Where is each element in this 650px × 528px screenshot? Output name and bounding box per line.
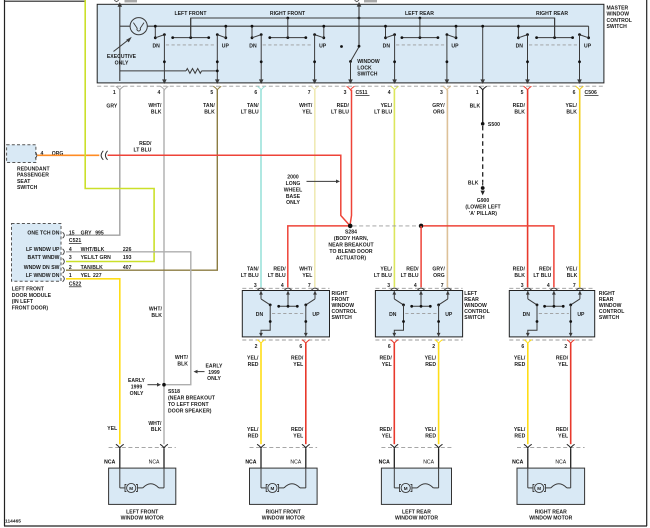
svg-text:TAN/: TAN/: [247, 267, 259, 273]
svg-text:7: 7: [441, 283, 444, 289]
RIGHT FRONT pin stubs: [260, 449, 262, 469]
svg-text:GRY: GRY: [81, 230, 93, 236]
LEFT REAR window control switch box: [375, 291, 462, 337]
svg-text:RED/: RED/: [291, 356, 304, 362]
svg-text:5: 5: [521, 90, 524, 96]
wire YEL/RED RF pin2 to RF motor: [260, 343, 262, 444]
svg-text:NCA: NCA: [245, 459, 256, 465]
svg-text:3: 3: [440, 90, 443, 96]
svg-text:EARLY: EARLY: [206, 364, 224, 370]
LEFT REAR pin cap x=421: [417, 288, 424, 290]
svg-text:LEFT FRONT: LEFT FRONT: [174, 11, 207, 17]
RIGHT REAR pin cap x=553.9: [550, 288, 557, 290]
svg-text:2: 2: [564, 344, 567, 350]
off-page chevron (top left): [114, 0, 118, 2]
svg-text:TO BLEND DOOR: TO BLEND DOOR: [329, 249, 372, 255]
master LEFT REAR DN wiper: [386, 35, 395, 38]
svg-text:7: 7: [573, 283, 576, 289]
RIGHT FRONT motor M symbol: [260, 468, 262, 488]
RIGHT REAR mechanical link dashed: [539, 312, 569, 314]
master RIGHT REAR UP pin line: [579, 35, 581, 81]
svg-text:SWITCH: SWITCH: [357, 72, 378, 78]
svg-text:RED: RED: [425, 362, 436, 368]
svg-text:3: 3: [69, 255, 72, 261]
wire ORG horizontal: [37, 154, 99, 156]
svg-text:YEL/: YEL/: [514, 356, 526, 362]
dashed harness run S284 to splice: [353, 225, 419, 227]
wire RED/LT BLU horizontal to S284 branch: [108, 155, 349, 224]
window lock switch: [358, 45, 361, 48]
svg-text:WHT/: WHT/: [175, 355, 189, 361]
LEFT REAR DN wiper: [394, 299, 403, 305]
svg-text:GRY/: GRY/: [432, 267, 445, 273]
LEFT REAR window motor box: [381, 468, 451, 504]
LEFT REAR motor pin feet NCA: [390, 444, 398, 448]
svg-text:YEL: YEL: [107, 426, 117, 432]
svg-text:MASTER: MASTER: [607, 5, 629, 11]
window lock switch free contact: [340, 45, 343, 48]
svg-text:ACTUATOR): ACTUATOR): [336, 256, 366, 262]
splice node (body harness): [419, 224, 424, 229]
RIGHT REAR pin stubs: [527, 449, 529, 469]
svg-text:1999: 1999: [208, 370, 220, 376]
svg-text:YEL: YEL: [558, 433, 568, 439]
RIGHT FRONT connector dashes bottom: [242, 339, 329, 341]
svg-text:PASSENGER: PASSENGER: [17, 173, 49, 179]
svg-text:ONLY: ONLY: [207, 376, 221, 382]
svg-text:M: M: [129, 486, 133, 491]
svg-text:UP: UP: [451, 44, 459, 50]
RIGHT FRONT bottom pin 2 foot: [257, 340, 265, 344]
wire YEL/RED RR pin6 to RR motor: [527, 343, 529, 444]
svg-text:1: 1: [476, 90, 479, 96]
svg-text:WINDOW: WINDOW: [607, 12, 630, 18]
svg-text:YEL/: YEL/: [247, 427, 259, 433]
svg-text:BLK: BLK: [177, 361, 188, 367]
svg-text:(LOWER LEFT: (LOWER LEFT: [465, 205, 501, 211]
window lock switch wiper: [351, 48, 359, 62]
master LEFT FRONT center contact bar: [173, 37, 209, 39]
svg-text:WNDW DN SW: WNDW DN SW: [24, 265, 60, 271]
master RIGHT FRONT DN contact stub: [251, 26, 253, 38]
master RIGHT FRONT UP contact stub: [323, 26, 325, 38]
svg-text:3: 3: [521, 283, 524, 289]
wire: lamp feed vertical x=119.8 with up arrow: [119, 4, 121, 81]
LEFT FRONT window motor box: [109, 468, 176, 504]
svg-text:TAN/BLK: TAN/BLK: [81, 265, 104, 271]
svg-text:(NEAR BREAKOUT: (NEAR BREAKOUT: [168, 395, 216, 401]
svg-text:RED/: RED/: [291, 427, 304, 433]
svg-text:RED/: RED/: [513, 267, 526, 273]
svg-text:3: 3: [254, 283, 257, 289]
svg-text:LT BLU: LT BLU: [331, 109, 349, 115]
master RIGHT REAR center contact bar: [537, 37, 573, 39]
connector pin 5 at x=217.3: [213, 86, 221, 90]
master ground pin line (BLK pin 1): [482, 26, 484, 80]
RIGHT FRONT pin cap x=288: [284, 288, 291, 290]
svg-text:LT BLU: LT BLU: [134, 147, 152, 153]
svg-text:UP: UP: [584, 44, 592, 50]
svg-text:LT BLU: LT BLU: [533, 273, 551, 279]
master RIGHT REAR UP wiper: [580, 35, 589, 38]
inline connector ((: [101, 151, 103, 160]
wire YEL/BLK vertical (to RR switch pin 7): [579, 90, 581, 287]
svg-text:DN: DN: [256, 312, 264, 318]
svg-text:ONLY: ONLY: [130, 391, 144, 397]
master window control switch U-box: [97, 4, 604, 83]
RIGHT REAR bottom pin 6 foot: [524, 340, 532, 344]
svg-text:REDUNDANT: REDUNDANT: [17, 166, 50, 172]
svg-text:YEL/LT GRN: YEL/LT GRN: [81, 255, 112, 261]
wire BLK dashed to ground: [482, 126, 484, 182]
master LEFT REAR UP contact stub: [455, 26, 457, 38]
svg-text:RED: RED: [248, 362, 259, 368]
svg-text:SWITCH: SWITCH: [332, 315, 353, 321]
svg-text:6: 6: [521, 344, 524, 350]
svg-text:BLK: BLK: [567, 273, 578, 279]
svg-text:DN: DN: [389, 312, 397, 318]
RIGHT FRONT center bar: [287, 291, 289, 306]
svg-text:YEL/: YEL/: [566, 103, 578, 109]
svg-text:WHEEL: WHEEL: [284, 187, 303, 193]
seat switch pin bracket: [35, 152, 37, 158]
svg-text:2: 2: [69, 265, 72, 271]
module wire YEL to LF motor: [66, 279, 120, 444]
connector pin 5 at x=527.5: [524, 86, 532, 90]
svg-text:YEL/: YEL/: [247, 356, 259, 362]
up bus line A y=18: [191, 18, 555, 38]
wire RED/LT BLU from C511 pin 3 to S284: [350, 90, 351, 224]
LEFT FRONT window motor connector dashes: [109, 447, 176, 449]
RIGHT FRONT UP pin entry: [314, 291, 316, 299]
RIGHT REAR connector dashes top: [509, 287, 594, 289]
LEFT REAR pin cap x=394.3: [391, 288, 398, 290]
svg-text:LEFT REAR: LEFT REAR: [405, 11, 434, 17]
svg-text:S518: S518: [168, 389, 180, 395]
svg-text:6: 6: [388, 344, 391, 350]
svg-text:LONG: LONG: [286, 181, 301, 187]
svg-text:RED/: RED/: [337, 103, 350, 109]
connector pin 3 at x=446.9: [443, 86, 451, 90]
svg-text:GRY: GRY: [106, 104, 118, 110]
RIGHT FRONT connector dashes top: [242, 287, 329, 289]
splice S500: [481, 122, 485, 126]
wire RED/BLK vertical (to RR switch pin 3): [527, 90, 529, 287]
wire WHT/YEL vertical (to RF switch pin 7): [314, 90, 316, 287]
svg-text:DOOR SPEAKER): DOOR SPEAKER): [168, 408, 212, 414]
svg-text:LT BLU: LT BLU: [374, 273, 392, 279]
node: line A dots: [286, 17, 289, 20]
svg-text:RED/: RED/: [556, 427, 569, 433]
wire YEL/RED LR pin2 to LR motor: [438, 343, 440, 444]
svg-text:SWITCH: SWITCH: [464, 315, 485, 321]
RIGHT FRONT UP wiper: [306, 299, 315, 305]
page border top (partial): [4, 0, 85, 2]
master LEFT REAR UP wiper: [447, 35, 456, 38]
LEFT REAR UP pin entry: [447, 291, 449, 299]
connector pin 3 at x=350.5: [347, 86, 355, 90]
splice S518: [162, 383, 166, 387]
RIGHT REAR bottom pin 2 foot: [567, 340, 575, 344]
master LEFT FRONT DN pin line: [163, 35, 165, 81]
svg-text:WHT/: WHT/: [148, 103, 162, 109]
svg-text:5: 5: [210, 90, 213, 96]
LEFT REAR bottom pin 6 foot: [390, 340, 398, 344]
LEFT FRONT pin stubs: [119, 449, 121, 469]
svg-text:LOCK: LOCK: [357, 65, 372, 71]
master LEFT REAR mechanical link (dashed): [396, 44, 445, 46]
svg-text:S284: S284: [345, 230, 357, 236]
svg-text:RED/: RED/: [379, 427, 392, 433]
master RIGHT FRONT UP pin line: [314, 35, 316, 81]
svg-text:GRY/: GRY/: [432, 103, 445, 109]
master LEFT REAR center vertical: [419, 18, 421, 38]
ground G900 symbol: [482, 182, 484, 185]
redundant passenger seat switch box: [7, 145, 36, 163]
master RIGHT REAR DN wiper: [518, 35, 527, 38]
svg-text:'A' PILLAR): 'A' PILLAR): [469, 211, 497, 217]
wire BLK vertical to S500: [482, 90, 484, 124]
svg-text:TO LEFT FRONT: TO LEFT FRONT: [168, 402, 209, 408]
LEFT REAR window motor connector dashes: [381, 447, 451, 449]
svg-text:WINDOW: WINDOW: [357, 59, 380, 65]
LEFT REAR motor M symbol: [393, 468, 395, 488]
off-page chevron (top middle): [355, 0, 359, 2]
svg-text:3: 3: [344, 90, 347, 96]
connector pin 1 at x=119.8: [116, 86, 124, 90]
svg-text:YEL/: YEL/: [566, 267, 578, 273]
master LEFT FRONT DN wiper: [155, 35, 164, 38]
svg-text:NCA: NCA: [512, 459, 523, 465]
LEFT REAR UP leg: [438, 305, 440, 333]
svg-text:NCA: NCA: [104, 459, 115, 465]
svg-text:DN: DN: [249, 44, 257, 50]
svg-text:BLK: BLK: [151, 427, 162, 433]
svg-text:6: 6: [573, 90, 576, 96]
svg-text:RED/: RED/: [513, 103, 526, 109]
LEFT REAR mechanical link dashed: [405, 312, 437, 314]
LEFT REAR pin stubs: [393, 449, 395, 469]
svg-text:LEFT FRONT: LEFT FRONT: [126, 509, 159, 515]
LEFT FRONT motor pin feet NCA: [116, 444, 124, 448]
svg-text:TAN/: TAN/: [247, 103, 259, 109]
svg-text:SWITCH: SWITCH: [599, 315, 620, 321]
master RIGHT FRONT mechanical link (dashed): [263, 44, 313, 46]
LEFT REAR connector dashes top: [375, 287, 462, 289]
wire TAN/BLK vertical + into module pin 2: [66, 90, 217, 270]
svg-text:193: 193: [123, 255, 132, 261]
svg-text:WHT/: WHT/: [149, 307, 163, 313]
svg-text:RED/: RED/: [273, 267, 286, 273]
svg-text:114465: 114465: [5, 519, 21, 525]
svg-text:DN: DN: [383, 44, 391, 50]
up arrow to top at x=359 (window lock feed): [358, 3, 360, 46]
svg-text:YEL: YEL: [302, 109, 312, 115]
master LEFT FRONT UP contact stub: [225, 26, 227, 38]
svg-text:G900: G900: [477, 198, 490, 204]
svg-text:UP: UP: [222, 44, 230, 50]
svg-text:M: M: [270, 486, 274, 491]
svg-text:4: 4: [414, 283, 417, 289]
connector pin 6 at x=261.2: [257, 86, 265, 90]
RIGHT REAR UP leg: [570, 305, 572, 333]
svg-text:4: 4: [547, 283, 550, 289]
master LEFT REAR DN pin line: [394, 35, 396, 81]
master RIGHT FRONT DN pin line: [260, 35, 262, 81]
main bus line B y=26.2: [120, 25, 130, 27]
svg-text:BLK: BLK: [204, 109, 215, 115]
master LEFT REAR DN contact stub: [385, 26, 387, 38]
svg-text:SWITCH: SWITCH: [17, 185, 38, 191]
svg-text:YEL/: YEL/: [380, 267, 392, 273]
svg-text:BLK: BLK: [514, 273, 525, 279]
RIGHT REAR connector dashes bottom: [509, 339, 594, 341]
connector pin 6 at x=579.5: [576, 86, 584, 90]
master RIGHT REAR center vertical: [554, 18, 556, 38]
svg-text:DOOR MODULE: DOOR MODULE: [12, 293, 52, 299]
svg-text:NCA: NCA: [555, 459, 566, 465]
svg-text:RED/: RED/: [406, 267, 419, 273]
master RIGHT FRONT DN wiper: [252, 35, 261, 38]
svg-text:LF WNDW DN: LF WNDW DN: [26, 273, 60, 279]
wire GRY/ORG vertical (to LR switch pin 7): [446, 90, 448, 287]
RIGHT FRONT pin cap x=261: [257, 288, 264, 290]
svg-text:15: 15: [69, 230, 75, 236]
svg-text:YEL/: YEL/: [425, 356, 437, 362]
svg-text:WHT/: WHT/: [148, 421, 162, 427]
LEFT FRONT motor M symbol: [119, 468, 121, 488]
illumination lamp (EXECUTIVE ONLY): [130, 18, 147, 35]
RIGHT REAR pin cap x=527.8: [524, 288, 531, 290]
LEFT REAR DN leg: [394, 305, 403, 333]
svg-text:6: 6: [299, 344, 302, 350]
RIGHT REAR window motor connector dashes: [517, 447, 585, 449]
svg-text:YEL: YEL: [302, 273, 312, 279]
svg-text:NCA: NCA: [423, 459, 434, 465]
svg-text:UP: UP: [577, 312, 585, 318]
wire RED/LT BLU branch to LR switch pin 4: [420, 226, 422, 287]
svg-text:(IN LEFT: (IN LEFT: [12, 299, 34, 305]
svg-text:WHT/: WHT/: [299, 267, 313, 273]
page border bottom: [4, 525, 647, 527]
LEFT REAR center bar: [420, 291, 422, 306]
off-page connector bar (top middle): [364, 0, 377, 2]
svg-text:DN: DN: [152, 44, 160, 50]
master LEFT REAR UP pin line: [446, 35, 448, 81]
off-page connector bar (top left): [125, 0, 138, 2]
svg-text:NEAR BREAKOUT: NEAR BREAKOUT: [328, 243, 374, 249]
svg-text:NCA: NCA: [290, 459, 301, 465]
connector pin 7 at x=314.6: [311, 86, 319, 90]
master LEFT FRONT DN contact stub: [154, 26, 156, 38]
svg-text:LEFT FRONT: LEFT FRONT: [12, 287, 45, 293]
svg-text:RED: RED: [425, 433, 436, 439]
RIGHT FRONT motor pin feet NCA: [257, 444, 265, 448]
svg-text:2: 2: [432, 344, 435, 350]
wire RED/YEL RR pin2 to RR motor: [570, 343, 572, 444]
svg-text:WINDOW MOTOR: WINDOW MOTOR: [262, 516, 305, 522]
svg-text:SEAT: SEAT: [17, 179, 31, 185]
svg-text:WINDOW MOTOR: WINDOW MOTOR: [529, 516, 572, 522]
RIGHT REAR UP wiper: [571, 299, 580, 305]
svg-text:S500: S500: [488, 122, 500, 128]
svg-text:RIGHT REAR: RIGHT REAR: [536, 11, 568, 17]
svg-text:LF WNDW UP: LF WNDW UP: [26, 247, 60, 253]
svg-text:LT BLU: LT BLU: [241, 273, 259, 279]
master LEFT REAR center contact bar: [402, 37, 438, 39]
svg-text:(BODY HARN,: (BODY HARN,: [334, 236, 369, 242]
master RIGHT REAR UP contact stub: [588, 26, 590, 38]
RIGHT FRONT DN pin entry: [260, 291, 262, 299]
RIGHT REAR DN leg: [528, 305, 537, 333]
svg-text:RED: RED: [514, 362, 525, 368]
svg-text:BLK: BLK: [151, 109, 162, 115]
svg-text:RED/: RED/: [379, 356, 392, 362]
svg-text:YEL/: YEL/: [514, 427, 526, 433]
svg-text:BASE: BASE: [286, 194, 301, 200]
LEFT REAR UP wiper: [439, 299, 448, 305]
svg-text:4: 4: [388, 90, 391, 96]
svg-text:UP: UP: [445, 312, 453, 318]
master RIGHT REAR mechanical link (dashed): [529, 44, 578, 46]
svg-text:BLK: BLK: [514, 109, 525, 115]
svg-text:RED: RED: [248, 433, 259, 439]
wire WHT/BLK vertical (master pin4 to LF motor): [163, 90, 165, 444]
RIGHT FRONT mechanical link dashed: [272, 312, 304, 314]
RIGHT FRONT window control switch box: [242, 291, 329, 337]
RIGHT FRONT bottom pin 6 foot: [302, 340, 310, 344]
connector dashed line under master switch: [97, 85, 604, 87]
svg-text:EXECUTIVE: EXECUTIVE: [107, 54, 137, 60]
svg-text:ORG: ORG: [433, 273, 445, 279]
page border right: [646, 0, 648, 526]
RIGHT REAR window control switch box: [509, 291, 594, 337]
svg-text:LT BLU: LT BLU: [241, 109, 259, 115]
wire GRY vertical + into module pin 15: [66, 90, 120, 235]
svg-text:SWITCH: SWITCH: [607, 24, 628, 30]
RIGHT FRONT UP leg: [305, 305, 307, 333]
svg-text:YEL: YEL: [382, 433, 392, 439]
RIGHT FRONT window motor box: [250, 468, 318, 504]
svg-text:LT BLU: LT BLU: [374, 109, 392, 115]
svg-text:BLK: BLK: [470, 104, 481, 110]
RIGHT REAR center bar: [553, 291, 555, 306]
master RIGHT FRONT center vertical: [287, 18, 289, 38]
RIGHT FRONT window motor connector dashes: [250, 447, 318, 449]
RIGHT FRONT DN leg: [261, 305, 270, 333]
wire RED/LT BLU branch to RR switch pin 4: [423, 226, 554, 287]
svg-text:YEL: YEL: [382, 362, 392, 368]
svg-text:DN: DN: [516, 44, 524, 50]
svg-text:WINDOW MOTOR: WINDOW MOTOR: [121, 516, 164, 522]
svg-text:RED/: RED/: [556, 356, 569, 362]
svg-text:BLK: BLK: [566, 109, 577, 115]
LEFT REAR pin cap x=447.8: [444, 288, 451, 290]
RIGHT REAR pin cap x=579.9: [576, 288, 583, 290]
wire TAN/LT BLU vertical (to RF switch pin 3): [260, 90, 262, 287]
svg-text:FRONT DOOR): FRONT DOOR): [12, 306, 49, 312]
svg-text:NCA: NCA: [149, 459, 160, 465]
RIGHT REAR motor M symbol: [527, 468, 529, 488]
RIGHT REAR UP pin entry: [579, 291, 581, 299]
svg-text:BLK: BLK: [468, 180, 479, 186]
RIGHT REAR DN pin entry: [527, 291, 529, 299]
svg-text:DN: DN: [523, 312, 531, 318]
resistor (one-touch-down): [120, 70, 186, 72]
svg-text:BATT WNDW: BATT WNDW: [28, 255, 60, 261]
svg-text:7: 7: [308, 90, 311, 96]
master RIGHT REAR DN contact stub: [517, 26, 519, 38]
